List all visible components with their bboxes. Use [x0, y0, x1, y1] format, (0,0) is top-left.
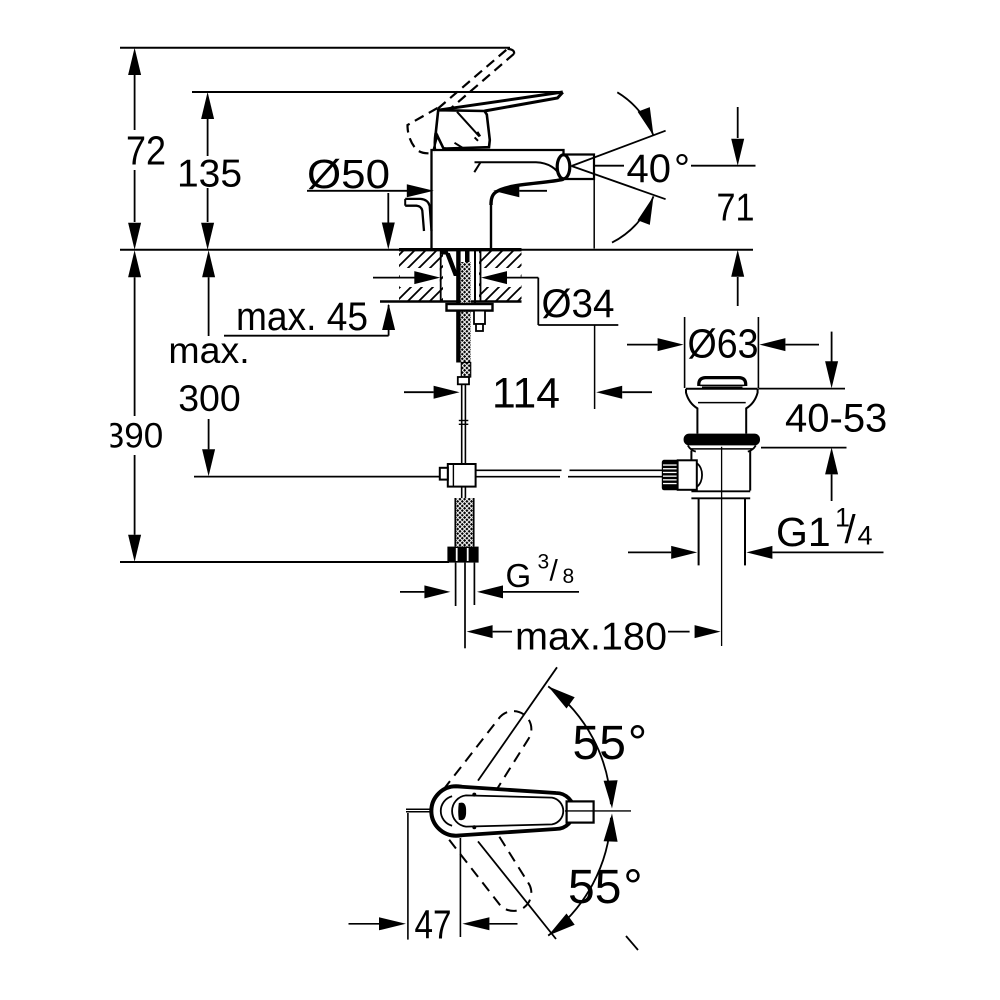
svg-text:40-53: 40-53 [785, 397, 887, 441]
svg-text:71: 71 [717, 187, 755, 230]
svg-text:3: 3 [538, 551, 550, 574]
svg-text:55°: 55° [573, 717, 648, 770]
svg-text:Ø50: Ø50 [307, 151, 390, 197]
svg-text:72: 72 [126, 128, 166, 174]
svg-text:max.180: max.180 [515, 616, 667, 659]
svg-text:40°: 40° [627, 147, 691, 191]
svg-text:300: 300 [178, 377, 241, 419]
svg-text:Ø63: Ø63 [688, 321, 759, 367]
svg-text:4: 4 [858, 521, 873, 551]
svg-text:max. 45: max. 45 [236, 295, 368, 339]
svg-text:390: 390 [105, 417, 163, 456]
svg-text:55°: 55° [568, 861, 643, 914]
svg-text:G: G [506, 557, 532, 594]
svg-text:/: / [845, 508, 857, 552]
svg-text:G1: G1 [776, 509, 831, 555]
svg-text:135: 135 [177, 153, 242, 196]
svg-text:Ø34: Ø34 [542, 282, 615, 326]
svg-text:/: / [550, 555, 559, 588]
svg-text:47: 47 [415, 902, 452, 948]
svg-text:8: 8 [563, 565, 575, 588]
svg-text:114: 114 [492, 370, 560, 418]
svg-text:max.: max. [168, 329, 249, 371]
